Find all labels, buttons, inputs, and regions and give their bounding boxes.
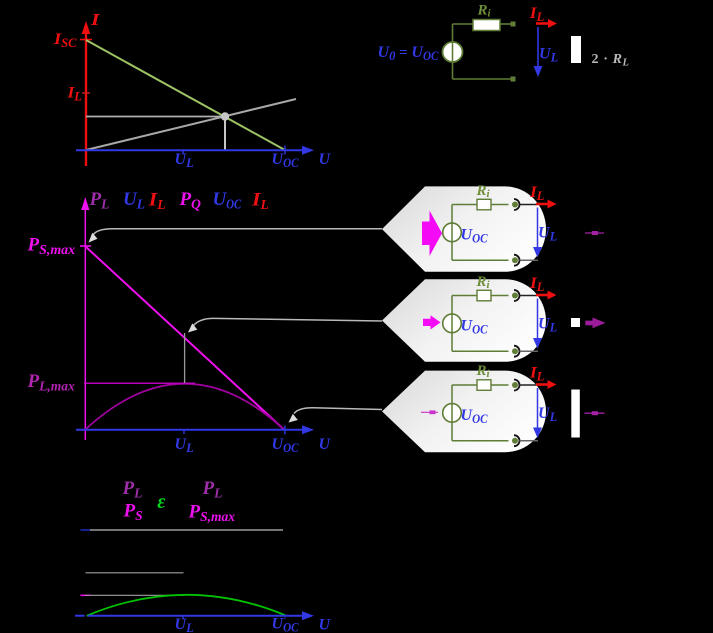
resistor Ri b1 xyxy=(477,199,491,210)
wire top xyxy=(453,23,474,25)
load bar 2RL xyxy=(571,36,581,63)
wire top right b1 xyxy=(491,204,509,206)
voltage arrow UL b3 xyxy=(537,388,539,432)
callout line 1 xyxy=(89,229,383,243)
tick UOC xyxy=(284,146,286,155)
wire top right xyxy=(500,23,511,25)
tick PSmax xyxy=(80,245,91,247)
voltage source U0 xyxy=(443,42,463,62)
curve PL (purple parabola) xyxy=(85,384,284,430)
wire bottom b2 xyxy=(452,350,509,352)
resistor Ri b3 xyxy=(477,380,491,391)
level 0.25 line xyxy=(91,594,184,596)
current arrow IL (red) xyxy=(536,19,557,28)
load arrow small b3 xyxy=(585,411,605,415)
terminal bottom b1 xyxy=(514,255,520,266)
resistor Ri xyxy=(473,20,500,31)
current arrow IL b3 xyxy=(536,383,549,386)
resistor Ri b2 xyxy=(477,290,491,301)
current arrow IL b1 xyxy=(536,203,549,206)
wire bottom b1 xyxy=(452,259,509,261)
wire bottom b3 xyxy=(452,440,509,442)
balloon 1 bubble xyxy=(382,186,546,271)
source line (green) xyxy=(86,40,284,150)
terminal bottom (square) xyxy=(511,77,516,82)
load line (gray) xyxy=(86,99,296,150)
level 0.25 tick (magenta) xyxy=(80,594,84,596)
axis U bottom (blue horizontal) xyxy=(75,611,314,620)
tick UOC bottom xyxy=(284,616,286,619)
wire stub bottom b2 xyxy=(520,350,539,352)
tick UL xyxy=(182,150,184,155)
load resistor square b2 xyxy=(571,318,580,327)
svg-text:U: U xyxy=(319,436,332,453)
voltage source UOC b3 xyxy=(443,404,462,423)
callout line 3 xyxy=(289,408,383,423)
load arrow small b1 xyxy=(585,231,604,235)
line PLmax horizontal xyxy=(84,382,195,384)
level 0.5 line xyxy=(86,572,184,574)
axis PL (magenta vertical) xyxy=(81,197,89,440)
terminal top b1 xyxy=(514,199,520,210)
axis I (red vertical) xyxy=(82,21,91,166)
voltage arrow UL (blue) xyxy=(534,27,543,77)
terminal bottom b3 xyxy=(514,435,520,446)
tick UL bottom xyxy=(182,616,184,620)
small power arrow (thin magenta) xyxy=(421,411,438,413)
voltage source UOC b2 xyxy=(443,314,462,333)
operating point dot xyxy=(221,112,229,120)
wire stub bottom b3 xyxy=(520,440,539,442)
axis U middle (blue horizontal) xyxy=(76,425,314,434)
wire top right b3 xyxy=(491,384,509,386)
efficiency curve (green) xyxy=(87,595,287,616)
tick ISC xyxy=(80,39,92,41)
load resistor tall bar b3 xyxy=(571,390,580,438)
wire stub top b1 xyxy=(520,204,538,206)
balloon 3 bubble xyxy=(382,371,546,453)
voltage arrow UL b2 xyxy=(537,299,539,343)
wire top right b2 xyxy=(491,295,509,297)
wire left vertical b1 xyxy=(451,205,453,261)
svg-text:U: U xyxy=(319,151,332,168)
level 1 tick (blue) xyxy=(80,529,90,531)
voltage source UOC b1 xyxy=(443,223,462,242)
wire top b1 xyxy=(452,204,477,206)
wire left vertical b2 xyxy=(451,296,453,352)
terminal top b3 xyxy=(514,380,520,391)
wire stub top b3 xyxy=(520,384,538,386)
big power arrow (magenta) xyxy=(422,211,442,257)
voltage arrow UL b1 xyxy=(537,208,539,252)
terminal bottom b2 xyxy=(514,346,520,357)
medium power arrow (magenta) xyxy=(423,315,441,329)
vertical white line at operating point xyxy=(224,118,226,150)
terminal top (square) xyxy=(511,22,516,27)
wire stub top b2 xyxy=(520,295,538,297)
current arrow IL b2 xyxy=(536,294,549,297)
wire top b3 xyxy=(452,384,477,386)
axis U (blue horizontal) xyxy=(76,146,314,155)
tick IL xyxy=(82,92,90,94)
balloon 2 bubble xyxy=(382,279,546,362)
wire top b2 xyxy=(452,295,477,297)
wire stub bottom b1 xyxy=(520,259,539,261)
callout line 2 xyxy=(188,318,382,332)
svg-text:ε: ε xyxy=(157,491,166,513)
load arrow medium b2 (purple) xyxy=(585,318,605,329)
line PQ (magenta diagonal) xyxy=(86,247,285,430)
level 1 line xyxy=(90,529,283,531)
terminal top b2 xyxy=(514,290,520,301)
svg-text:U: U xyxy=(319,617,332,633)
wire left vertical b3 xyxy=(451,385,453,441)
wire left vertical through source xyxy=(452,24,454,79)
tick UOC middle xyxy=(284,426,286,435)
vertical gray line at peak xyxy=(184,333,186,383)
horizontal gray line at IL xyxy=(86,116,221,118)
wire bottom xyxy=(453,78,512,80)
tick UL middle xyxy=(183,430,185,434)
